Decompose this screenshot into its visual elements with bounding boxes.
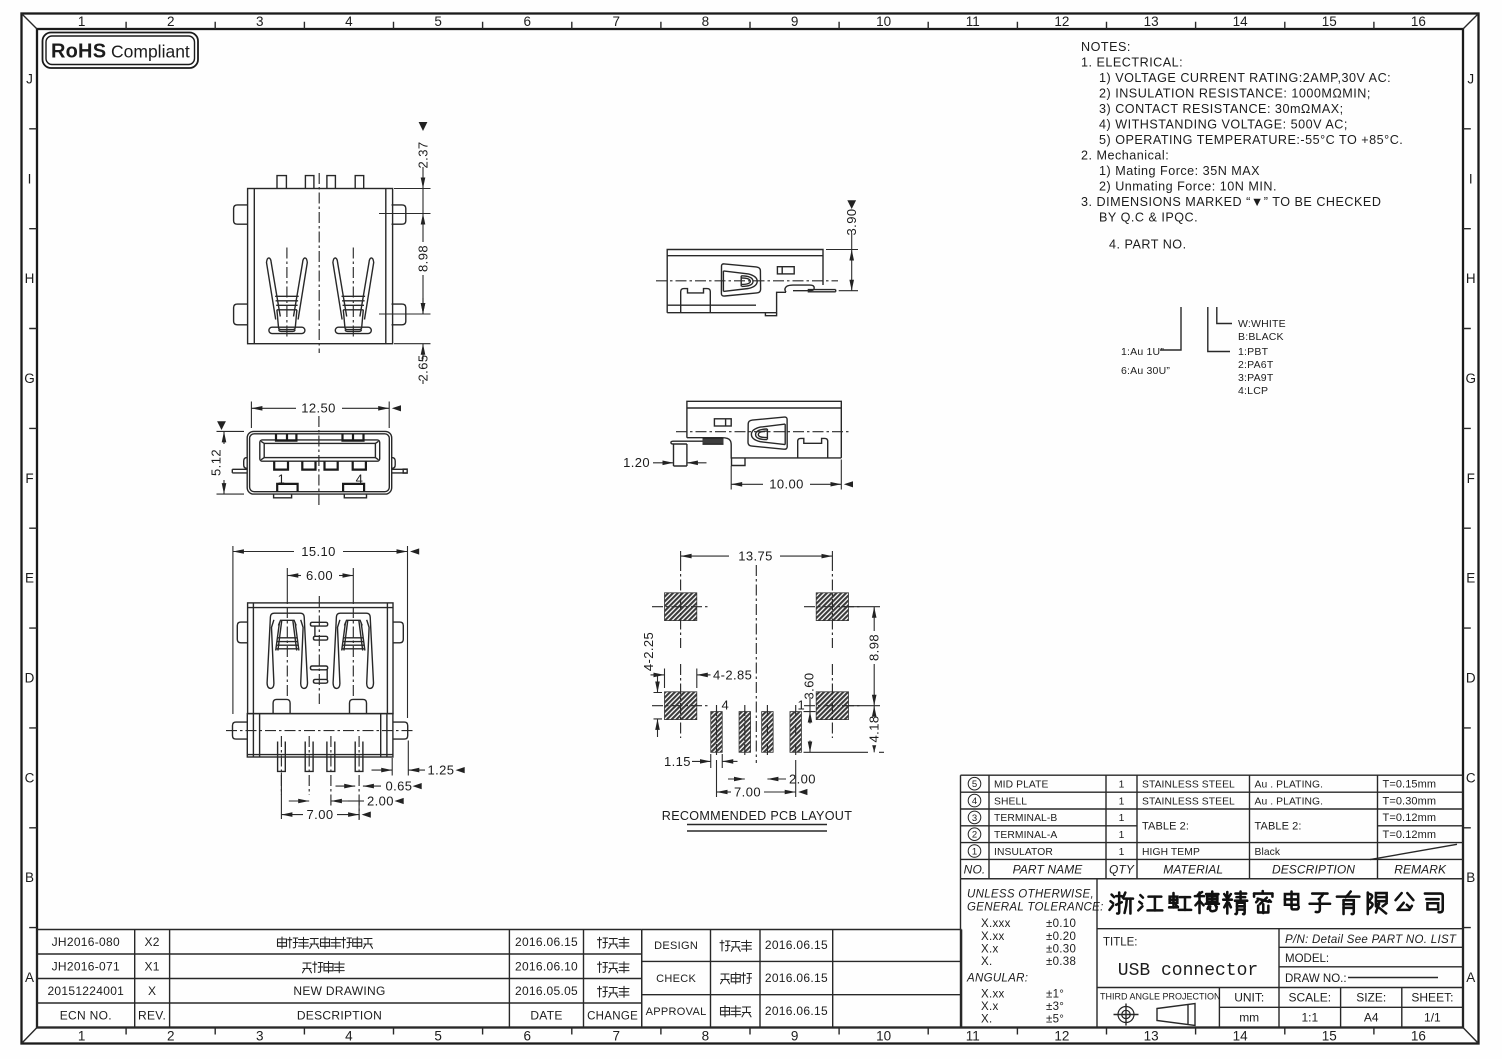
svg-text:USB connector: USB connector xyxy=(1118,961,1258,981)
svg-text:DESCRIPTION: DESCRIPTION xyxy=(1272,862,1355,876)
svg-text:APPROVAL: APPROVAL xyxy=(646,1006,707,1018)
part number legend tree xyxy=(1121,307,1286,397)
svg-text:±1°: ±1° xyxy=(1046,989,1064,1001)
bottom view center rib details xyxy=(310,622,327,626)
svg-text:8: 8 xyxy=(702,1029,710,1044)
svg-text:QTY: QTY xyxy=(1109,862,1135,876)
svg-text:2016.06.15: 2016.06.15 xyxy=(515,935,578,949)
top view vertical centerline xyxy=(318,173,320,353)
svg-text:B: B xyxy=(25,870,34,885)
svg-text:2016.06.15: 2016.06.15 xyxy=(765,1004,828,1018)
dimension 6.00 xyxy=(287,568,353,604)
svg-text:4: 4 xyxy=(345,1029,353,1044)
top view shell body xyxy=(248,189,393,344)
side view 1 SMT pads xyxy=(785,285,814,292)
svg-text:ECN NO.: ECN NO. xyxy=(60,1009,112,1023)
revision history table xyxy=(37,930,962,1028)
svg-text:Au . PLATING.: Au . PLATING. xyxy=(1255,780,1324,791)
svg-text:A: A xyxy=(25,970,34,985)
side view 2 retention clip xyxy=(748,417,787,449)
svg-text:TABLE 2:: TABLE 2: xyxy=(1255,821,1302,833)
front view shell outline xyxy=(247,431,392,494)
svg-text:10: 10 xyxy=(876,14,891,29)
bottom view vertical centerline xyxy=(318,596,320,704)
svg-text:X.x: X.x xyxy=(981,944,999,956)
svg-text:STAINLESS STEEL: STAINLESS STEEL xyxy=(1142,796,1235,807)
svg-text:P/N: Detail See PART NO. LIST: P/N: Detail See PART NO. LIST xyxy=(1285,934,1457,946)
svg-text:J: J xyxy=(26,71,33,86)
svg-text:REV.: REV. xyxy=(138,1009,166,1023)
svg-text:2) INSULATION RESISTANCE: 1000: 2) INSULATION RESISTANCE: 1000MΩMIN; xyxy=(1099,87,1371,101)
side view 1 through-hole leg bracket xyxy=(681,289,711,313)
side view 2 locating peg and lead xyxy=(671,441,674,444)
svg-text:1:Au 1U”: 1:Au 1U” xyxy=(1121,346,1164,358)
svg-text:6: 6 xyxy=(523,1029,531,1044)
svg-text:Black: Black xyxy=(1255,847,1281,858)
svg-text:1: 1 xyxy=(1119,780,1125,791)
design/check/approval signers xyxy=(720,940,730,951)
svg-text:HIGH TEMP: HIGH TEMP xyxy=(1142,847,1200,858)
svg-text:4. PART NO.: 4. PART NO. xyxy=(1109,238,1187,252)
svg-text:8.98: 8.98 xyxy=(416,245,431,272)
svg-text:1: 1 xyxy=(1119,796,1125,807)
svg-text:PART NAME: PART NAME xyxy=(1013,862,1084,876)
svg-text:G: G xyxy=(1465,371,1476,386)
svg-text:T=0.30mm: T=0.30mm xyxy=(1383,795,1437,807)
svg-text:1) Mating Force: 35N MAX: 1) Mating Force: 35N MAX xyxy=(1099,164,1260,178)
svg-text:DRAW NO.:: DRAW NO.: xyxy=(1285,973,1347,985)
svg-text:W:WHITE: W:WHITE xyxy=(1238,318,1286,330)
svg-text:6: 6 xyxy=(523,14,531,29)
svg-text:4: 4 xyxy=(345,14,353,29)
svg-text:12: 12 xyxy=(1054,14,1069,29)
svg-text:A4: A4 xyxy=(1364,1010,1379,1024)
svg-text:SHEET:: SHEET: xyxy=(1411,990,1453,1004)
svg-text:2. Mechanical:: 2. Mechanical: xyxy=(1081,149,1169,163)
svg-text:mm: mm xyxy=(1239,1010,1259,1024)
view: side view (through-hole side) xyxy=(656,200,859,316)
svg-text:1. ELECTRICAL:: 1. ELECTRICAL: xyxy=(1081,56,1183,70)
svg-text:±0.30: ±0.30 xyxy=(1046,944,1076,956)
svg-text:REMARK: REMARK xyxy=(1394,862,1447,876)
svg-text:DATE: DATE xyxy=(530,1009,562,1023)
svg-text:NO.: NO. xyxy=(964,862,986,876)
svg-text:5) OPERATING TEMPERATURE:-55°C: 5) OPERATING TEMPERATURE:-55°C TO +85°C. xyxy=(1099,133,1403,147)
svg-text:C: C xyxy=(1466,770,1476,785)
text: xin zeng gui ge xyxy=(303,963,312,973)
dimension 4-2.85 xyxy=(665,669,697,689)
side view 2 bottom peg xyxy=(732,458,746,466)
svg-text:14: 14 xyxy=(1233,14,1249,29)
svg-text:4) WITHSTANDING VOLTAGE: 500V: 4) WITHSTANDING VOLTAGE: 500V AC; xyxy=(1099,118,1348,132)
svg-text:7: 7 xyxy=(613,14,621,29)
parts list table xyxy=(961,775,1464,879)
bottom view upper side ears xyxy=(237,622,247,643)
svg-text:G: G xyxy=(24,371,35,386)
svg-text:2.37: 2.37 xyxy=(416,142,431,169)
svg-text:12.50: 12.50 xyxy=(301,401,336,416)
dimension 8.98 (PCB) xyxy=(842,607,880,706)
svg-text:7.00: 7.00 xyxy=(307,807,334,822)
svg-text:INSULATOR: INSULATOR xyxy=(994,847,1053,858)
text: sui gong cheng tu shang sheng ban ben ci xyxy=(278,937,287,948)
bottom view shell body xyxy=(248,603,393,714)
svg-text:F: F xyxy=(1467,471,1475,486)
svg-text:1: 1 xyxy=(1119,830,1125,841)
svg-text:STAINLESS STEEL: STAINLESS STEEL xyxy=(1142,780,1235,791)
svg-text:E: E xyxy=(25,571,34,586)
svg-text:15: 15 xyxy=(1322,14,1337,29)
svg-text:TABLE 2:: TABLE 2: xyxy=(1142,821,1189,833)
svg-text:11: 11 xyxy=(966,14,980,29)
dimension 2.37 xyxy=(379,189,431,344)
svg-text:4:LCP: 4:LCP xyxy=(1238,385,1268,397)
svg-text:H: H xyxy=(1466,271,1476,286)
svg-text:4.18: 4.18 xyxy=(867,716,882,743)
svg-text:±0.38: ±0.38 xyxy=(1046,956,1076,968)
svg-text:2016.05.05: 2016.05.05 xyxy=(515,984,578,998)
svg-text:SIZE:: SIZE: xyxy=(1356,990,1386,1004)
svg-text:UNLESS OTHERWISE,: UNLESS OTHERWISE, xyxy=(967,889,1094,901)
dimension 2.65 xyxy=(422,298,424,314)
svg-text:14: 14 xyxy=(1233,1029,1249,1044)
svg-text:GENERAL TOLERANCE:: GENERAL TOLERANCE: xyxy=(967,902,1104,914)
svg-text:JH2016-071: JH2016-071 xyxy=(52,960,120,974)
svg-text:T=0.15mm: T=0.15mm xyxy=(1383,779,1437,791)
bottom view solder pins xyxy=(278,742,286,772)
bottom view rear housing xyxy=(247,714,393,757)
svg-text:1:1: 1:1 xyxy=(1301,1010,1318,1024)
svg-text:CHECK: CHECK xyxy=(656,973,696,985)
dimension 1.15 xyxy=(711,754,723,768)
svg-text:3:PA9T: 3:PA9T xyxy=(1238,372,1274,384)
svg-text:7: 7 xyxy=(613,1029,621,1044)
svg-text:3: 3 xyxy=(256,14,264,29)
svg-text:4-2.85: 4-2.85 xyxy=(713,667,752,682)
front view centerline xyxy=(318,416,320,507)
side view 1 body outline xyxy=(667,250,823,313)
svg-text:NEW DRAWING: NEW DRAWING xyxy=(293,984,385,998)
svg-text:X.xxx: X.xxx xyxy=(981,918,1011,930)
dimension 7.00 xyxy=(281,773,359,820)
PCB mounting pads (hatched) xyxy=(665,593,697,621)
svg-text:2) Unmating Force: 10N MIN.: 2) Unmating Force: 10N MIN. xyxy=(1099,180,1277,194)
svg-text:13: 13 xyxy=(1144,1029,1159,1044)
dimension 0.65 xyxy=(336,785,356,787)
svg-text:X.: X. xyxy=(981,956,992,968)
svg-text:F: F xyxy=(25,471,33,486)
svg-text:15.10: 15.10 xyxy=(301,544,336,559)
svg-text:20151224001: 20151224001 xyxy=(47,984,124,998)
bottom view rear lugs xyxy=(273,699,290,713)
front view side bumps and board pins xyxy=(244,458,396,469)
svg-text:2: 2 xyxy=(167,14,175,29)
svg-text:H: H xyxy=(25,271,35,286)
svg-text:9: 9 xyxy=(791,1029,799,1044)
svg-text:2.00: 2.00 xyxy=(789,771,816,786)
title block xyxy=(961,879,1464,1028)
svg-text:TITLE:: TITLE: xyxy=(1103,937,1138,949)
svg-text:1/1: 1/1 xyxy=(1424,1010,1441,1024)
svg-text:11: 11 xyxy=(966,1029,980,1044)
svg-text:B: B xyxy=(1466,870,1475,885)
svg-text:±0.20: ±0.20 xyxy=(1046,931,1076,943)
svg-text:3.90: 3.90 xyxy=(844,209,859,236)
svg-text:9: 9 xyxy=(791,14,799,29)
svg-text:B:BLACK: B:BLACK xyxy=(1238,331,1284,343)
svg-text:12: 12 xyxy=(1054,1029,1069,1044)
third angle projection symbol xyxy=(1118,1007,1134,1023)
svg-text:X.: X. xyxy=(981,1014,992,1026)
svg-text:MID PLATE: MID PLATE xyxy=(994,780,1049,791)
svg-text:ANGULAR:: ANGULAR: xyxy=(966,973,1028,985)
svg-text:BY Q.C & IPQC.: BY Q.C & IPQC. xyxy=(1099,211,1198,225)
view: top view of USB connector xyxy=(234,122,431,384)
svg-text:D: D xyxy=(1466,671,1476,686)
svg-text:6.00: 6.00 xyxy=(306,568,333,583)
svg-text:15: 15 xyxy=(1322,1029,1337,1044)
dimension 4-2.25 xyxy=(654,693,663,719)
svg-text:0.65: 0.65 xyxy=(386,779,413,794)
svg-text:SHELL: SHELL xyxy=(994,796,1027,807)
dimension 3.60 xyxy=(804,712,885,753)
view: bottom view of USB connector xyxy=(226,544,465,822)
svg-text:X2: X2 xyxy=(144,935,159,949)
svg-text:2.65: 2.65 xyxy=(416,355,431,382)
front view bottom latch tabs xyxy=(277,484,364,492)
dimension 5.12 xyxy=(217,431,245,494)
dimension 12.50 xyxy=(251,402,389,429)
svg-text:1.20: 1.20 xyxy=(623,455,650,470)
side view 1 horizontal centerline xyxy=(656,280,838,282)
svg-text:I: I xyxy=(1469,171,1473,186)
top view spring contacts xyxy=(267,258,281,320)
svg-text:MODEL:: MODEL: xyxy=(1285,953,1329,965)
view: recommended PCB layout xyxy=(641,548,884,831)
svg-text:C: C xyxy=(25,770,35,785)
svg-text:1: 1 xyxy=(972,846,977,857)
svg-text:1.15: 1.15 xyxy=(664,754,691,769)
svg-text:16: 16 xyxy=(1411,14,1426,29)
side view 2 rear foot xyxy=(798,438,828,458)
svg-text:1:PBT: 1:PBT xyxy=(1238,346,1269,358)
svg-text:Compliant: Compliant xyxy=(111,42,190,62)
svg-text:3) CONTACT RESISTANCE: 30mΩMAX: 3) CONTACT RESISTANCE: 30mΩMAX; xyxy=(1099,102,1344,116)
svg-text:5: 5 xyxy=(972,779,977,790)
svg-text:2: 2 xyxy=(972,830,977,841)
svg-text:T=0.12mm: T=0.12mm xyxy=(1383,812,1437,824)
svg-text:3.60: 3.60 xyxy=(802,673,817,700)
svg-text:3. DIMENSIONS MARKED “▼” TO BE: 3. DIMENSIONS MARKED “▼” TO BE CHECKED xyxy=(1081,195,1381,209)
svg-text:X.x: X.x xyxy=(981,1001,999,1013)
bottom view horizontal centerline xyxy=(226,730,414,732)
svg-text:Au . PLATING.: Au . PLATING. xyxy=(1255,796,1324,807)
svg-text:1: 1 xyxy=(78,14,86,29)
front view top latch notches xyxy=(276,434,364,441)
svg-text:1: 1 xyxy=(1119,847,1125,858)
small CJK glyph approximations xyxy=(278,937,752,1017)
svg-text:±5°: ±5° xyxy=(1046,1014,1064,1026)
svg-text:4-2.25: 4-2.25 xyxy=(641,632,656,671)
item number balloons xyxy=(968,777,981,790)
svg-text:I: I xyxy=(28,171,32,186)
view: front view of USB receptacle xyxy=(209,401,408,508)
side view 2 body outline xyxy=(687,401,841,458)
svg-text:RoHS: RoHS xyxy=(51,41,106,63)
svg-text:13.75: 13.75 xyxy=(738,548,773,563)
company name: Zhejiang Hongsui Precision Electronics Co., Ltd. xyxy=(1110,891,1443,914)
bottom view lower side ears xyxy=(233,722,248,739)
svg-text:UNIT:: UNIT: xyxy=(1234,990,1264,1004)
front view tongue xyxy=(260,440,380,461)
svg-text:2:PA6T: 2:PA6T xyxy=(1238,359,1274,371)
bottom view spring contacts xyxy=(270,613,304,617)
svg-text:E: E xyxy=(1466,571,1475,586)
svg-text:5: 5 xyxy=(434,1029,442,1044)
top view solder tabs on top edge xyxy=(277,176,364,189)
svg-text:TERMINAL-B: TERMINAL-B xyxy=(994,813,1057,824)
remark diagonal slash xyxy=(1370,844,1457,859)
svg-text:1: 1 xyxy=(78,1029,86,1044)
view: side view (SMT side) xyxy=(623,401,853,491)
svg-text:2016.06.15: 2016.06.15 xyxy=(765,971,828,985)
svg-text:T=0.12mm: T=0.12mm xyxy=(1383,829,1437,841)
svg-text:DESIGN: DESIGN xyxy=(654,940,698,952)
dimension 3.90 xyxy=(847,200,856,209)
svg-text:NOTES:: NOTES: xyxy=(1081,40,1131,54)
svg-text:A: A xyxy=(1466,970,1475,985)
svg-text:10: 10 xyxy=(876,1029,891,1044)
dimension 1.25 xyxy=(392,741,408,776)
dimension 13.75 xyxy=(681,551,833,560)
dimension 2.00 (PCB) xyxy=(728,778,745,780)
svg-text:8: 8 xyxy=(702,14,710,29)
svg-text:16: 16 xyxy=(1411,1029,1426,1044)
svg-text:THIRD ANGLE PROJECTION: THIRD ANGLE PROJECTION xyxy=(1100,992,1221,1002)
svg-text:CHANGE: CHANGE xyxy=(587,1011,638,1023)
svg-text:5: 5 xyxy=(434,14,442,29)
dimension 4.18 xyxy=(873,706,875,714)
notes text block xyxy=(1081,40,1403,252)
RoHS Compliant logo xyxy=(43,33,199,69)
svg-text:3: 3 xyxy=(972,813,977,824)
svg-text:X: X xyxy=(148,984,156,998)
svg-text:J: J xyxy=(1467,71,1474,86)
top view side mounting tabs xyxy=(234,205,248,224)
svg-text:MATERIAL: MATERIAL xyxy=(1163,862,1223,876)
svg-text:1: 1 xyxy=(1119,813,1125,824)
names chen shao bing (x3) xyxy=(598,937,608,948)
side view 1 bottom lug xyxy=(765,313,776,316)
side view 1 retention clip xyxy=(721,264,760,296)
svg-text:JH2016-080: JH2016-080 xyxy=(52,935,120,949)
svg-text:X1: X1 xyxy=(144,960,159,974)
svg-text:RECOMMENDED PCB LAYOUT: RECOMMENDED PCB LAYOUT xyxy=(662,809,852,823)
side view 2 horizontal centerline xyxy=(676,431,850,433)
svg-text:±0.10: ±0.10 xyxy=(1046,918,1076,930)
svg-text:2016.06.15: 2016.06.15 xyxy=(765,938,828,952)
svg-text:DESCRIPTION: DESCRIPTION xyxy=(297,1009,382,1023)
PCB pad centerlines xyxy=(681,560,833,738)
svg-text:SCALE:: SCALE: xyxy=(1288,990,1331,1004)
svg-text:13: 13 xyxy=(1144,14,1159,29)
svg-text:7.00: 7.00 xyxy=(734,784,761,799)
svg-text:2: 2 xyxy=(167,1029,175,1044)
svg-text:5.12: 5.12 xyxy=(209,449,224,476)
svg-text:TERMINAL-A: TERMINAL-A xyxy=(994,830,1057,841)
PCB pin slot pads (hatched) xyxy=(711,712,723,753)
front view contact slots xyxy=(274,461,366,469)
svg-text:D: D xyxy=(25,671,35,686)
svg-text:10.00: 10.00 xyxy=(769,477,804,492)
dimension 8.98 xyxy=(422,214,424,243)
svg-text:X.xx: X.xx xyxy=(981,931,1005,943)
svg-text:1) VOLTAGE CURRENT RATING:2AMP: 1) VOLTAGE CURRENT RATING:2AMP,30V AC: xyxy=(1099,71,1391,85)
svg-text:3: 3 xyxy=(256,1029,264,1044)
svg-text:2.00: 2.00 xyxy=(367,793,394,808)
side view 1 rear small latch detail xyxy=(777,267,794,274)
svg-text:4: 4 xyxy=(972,796,977,807)
dimension 15.10 xyxy=(233,546,408,718)
svg-text:±3°: ±3° xyxy=(1046,1001,1064,1013)
svg-text:X.xx: X.xx xyxy=(981,989,1005,1001)
svg-text:4: 4 xyxy=(722,698,730,713)
side view 2 front latch detail xyxy=(714,419,731,426)
svg-text:6:Au 30U”: 6:Au 30U” xyxy=(1121,365,1170,377)
svg-text:8.98: 8.98 xyxy=(867,634,882,661)
dimension 2.00 xyxy=(289,800,309,802)
dimension 10.00 xyxy=(731,460,841,490)
dimension 7.00 (PCB) xyxy=(717,760,796,797)
svg-text:2016.06.10: 2016.06.10 xyxy=(515,960,578,974)
svg-text:1.25: 1.25 xyxy=(428,763,455,778)
